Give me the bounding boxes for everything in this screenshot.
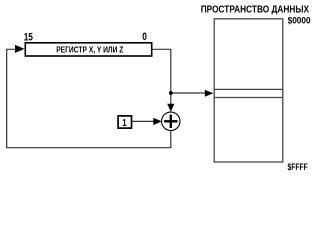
svg-text:$0000: $0000 <box>288 15 311 25</box>
svg-text:15: 15 <box>24 32 33 44</box>
svg-text:1: 1 <box>122 118 127 129</box>
svg-text:ПРОСТРАНСТВО ДАННЫХ: ПРОСТРАНСТВО ДАННЫХ <box>201 5 310 16</box>
svg-text:РЕГИСТР X, Y ИЛИ Z: РЕГИСТР X, Y ИЛИ Z <box>56 44 123 54</box>
svg-text:0: 0 <box>142 31 147 43</box>
svg-text:$FFFF: $FFFF <box>288 162 308 173</box>
